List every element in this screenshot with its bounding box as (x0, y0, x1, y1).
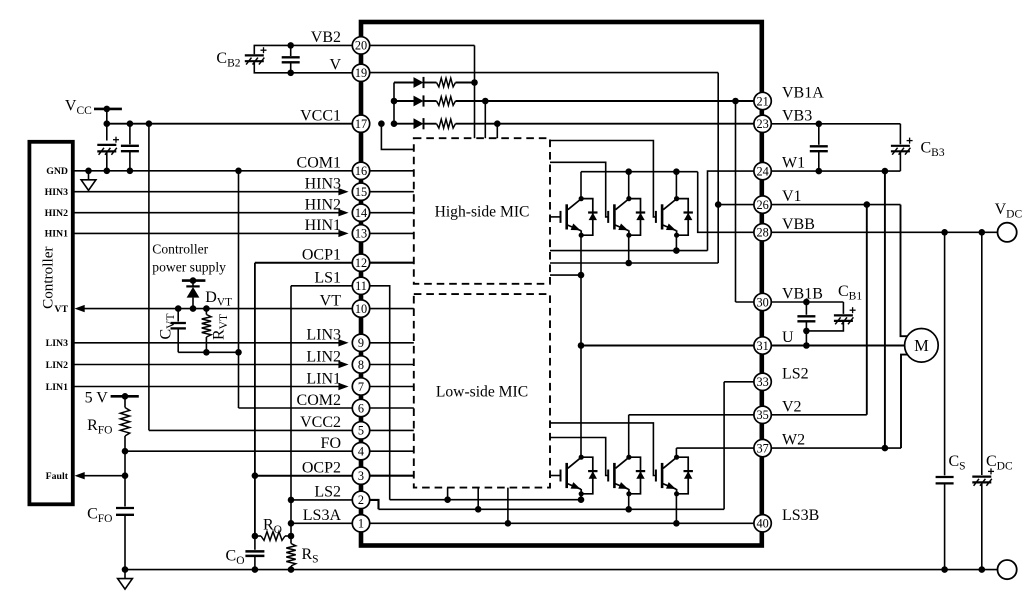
wire (456, 82, 475, 84)
svg-text:1: 1 (358, 517, 364, 531)
wire LIN signal (73, 364, 339, 366)
svg-text:21: 21 (756, 94, 768, 108)
wire VB3 riser into MIC (496, 124, 498, 139)
svg-text:VB3: VB3 (782, 107, 812, 124)
wire LS2 inside jog (370, 500, 379, 509)
wire V2 net (771, 414, 867, 416)
wire U net to pin 31 (581, 345, 754, 347)
wire VB1B inside to pin 30 (736, 301, 754, 303)
pin 30 (754, 293, 771, 310)
svg-text:11: 11 (355, 279, 367, 293)
junction Fault line (122, 472, 129, 479)
junction LS2 line (288, 497, 295, 504)
capacitor CB3 (electrolytic) (891, 138, 913, 155)
wire RVT to return rail (205, 337, 207, 352)
svg-text:VCC2: VCC2 (300, 414, 341, 431)
arrow into HIN pin (338, 209, 348, 216)
wire LIN2 into low-side MIC (370, 364, 414, 366)
wire GND/COM1 net (73, 170, 353, 172)
svg-text:Controller: Controller (40, 246, 57, 308)
wire Q5 emitter drop (628, 494, 630, 510)
wire gate Q2 route (550, 162, 608, 217)
pin 16 (352, 162, 369, 179)
junction sense stub (505, 520, 512, 527)
svg-text:35: 35 (756, 408, 768, 422)
junction LS3A line (288, 520, 295, 527)
svg-text:LIN3: LIN3 (46, 338, 68, 349)
junction sense stub (475, 506, 482, 513)
wire (394, 100, 414, 102)
junction W riser (882, 168, 889, 175)
wire to CFO (124, 451, 126, 506)
wire W-phase emitter line (550, 250, 708, 252)
svg-text:OCP1: OCP1 (302, 247, 341, 264)
pin 28 (754, 224, 771, 241)
svg-text:31: 31 (756, 339, 768, 353)
svg-text:5 V: 5 V (85, 389, 109, 406)
wire LS1 inside riser (370, 286, 390, 500)
svg-text:HIN3: HIN3 (45, 187, 69, 198)
wire Q2 collector (628, 172, 630, 199)
svg-text:VBB: VBB (782, 216, 815, 233)
wire V2 to pin 35 (629, 414, 754, 416)
wire VCC1 net (107, 123, 352, 125)
pin 31 (754, 337, 771, 354)
pin 20 (352, 37, 369, 54)
svg-text:VT: VT (320, 292, 342, 309)
Low-side MIC block (dashed) (414, 294, 550, 488)
arrow into controller VT (75, 305, 85, 312)
svg-text:VCC1: VCC1 (300, 108, 341, 125)
wire VB1B net (771, 301, 843, 303)
junction bootstrap row 1 (471, 79, 478, 86)
svg-text:power supply: power supply (152, 260, 226, 275)
wire W phase to motor (901, 355, 907, 449)
capacitor (ceramic) VB1B-U (797, 316, 815, 321)
wire (394, 123, 414, 125)
junction VCC1 stub (378, 120, 385, 127)
wire negative DC rail (125, 569, 998, 571)
junction Q6 emitter (673, 520, 680, 527)
transistor Q4 (U low) (IGBT with freewheel diode) (561, 455, 598, 497)
wire ceramic cap to GND line (129, 151, 131, 171)
wire HIN2 into high-side MIC (370, 212, 414, 214)
svg-text:M: M (914, 336, 929, 355)
junction on VCC bar (104, 106, 111, 113)
wire W1 net (771, 170, 900, 172)
wire to CDC (981, 232, 983, 475)
svg-text:13: 13 (355, 227, 367, 241)
svg-text:24: 24 (756, 164, 768, 178)
pin 13 (352, 225, 369, 242)
pin 11 (352, 277, 369, 294)
controller box (29, 142, 72, 505)
wire VCC1 to ceramic cap (129, 124, 131, 145)
svg-text:VB1B: VB1B (782, 286, 823, 303)
wire RFO to FO line (124, 436, 126, 451)
wire (290, 62, 292, 73)
wire collector rail to VBB pin 28 (698, 172, 754, 233)
High-side MIC block (dashed) (414, 138, 550, 284)
wire W2 net (771, 447, 901, 449)
junction cap return (803, 328, 810, 335)
transistor Q5 (V low) (IGBT with freewheel diode) (608, 455, 645, 497)
wire LIN signal (73, 342, 339, 344)
wire (424, 100, 437, 102)
wire (394, 82, 414, 84)
resistor RS (286, 544, 295, 567)
wire V1 to V2 riser (866, 205, 868, 415)
wire gate Q6 route (550, 423, 656, 476)
wire gate Q5 route (550, 438, 608, 476)
wire LIN signal (73, 386, 339, 388)
svg-text:V2: V2 (782, 398, 802, 415)
svg-text:4: 4 (358, 445, 364, 459)
wire V phase to motor (901, 205, 908, 337)
pin 10 (352, 300, 369, 317)
svg-text:16: 16 (355, 164, 367, 178)
wire VCC1 into MIC (381, 124, 413, 150)
junction VCC1/VCC2 riser (146, 120, 153, 127)
bootstrap resistor (row 3) (437, 119, 456, 128)
pin 4 (352, 443, 369, 460)
junction ground symbol (85, 168, 92, 175)
pin 24 (754, 162, 771, 179)
junction VT line (190, 305, 197, 312)
wire COM2 net (239, 407, 353, 409)
wire FO into low-side MIC (370, 450, 414, 452)
wire HIN signal (73, 232, 339, 234)
svg-text:W2: W2 (782, 432, 805, 449)
junction VB1B riser (732, 98, 739, 105)
power module outline (361, 22, 762, 546)
wire (424, 82, 437, 84)
pin 9 (352, 334, 369, 351)
bootstrap diode (row 2) (414, 95, 424, 106)
resistor RO (261, 532, 285, 541)
wire Q1 collector (580, 172, 582, 199)
pin 40 (754, 515, 771, 532)
wire U net to motor (771, 345, 904, 347)
svg-text:VB2: VB2 (311, 29, 341, 46)
wire CO to ground rail (254, 556, 256, 570)
bootstrap resistor (row 2) (437, 97, 456, 106)
wire bootstrap feed riser (393, 83, 395, 124)
pin 26 (754, 196, 771, 213)
svg-text:Fault: Fault (46, 471, 69, 482)
arrow into controller Fault (75, 472, 85, 479)
svg-text:Low-side MIC: Low-side MIC (436, 384, 528, 401)
wire Q6 emitter drop (675, 494, 677, 524)
wire HIN3 into high-side MIC (370, 191, 414, 193)
wire VB2 riser into MIC (474, 45, 476, 138)
wire CVT to return rail (177, 328, 179, 352)
transistor Q3 (W high) (IGBT with freewheel diode) (656, 196, 693, 238)
junction U line (803, 342, 810, 349)
wire VT into low-side MIC (370, 308, 414, 310)
wire LS2 net (291, 499, 352, 501)
wire VB1A to VB1B riser (735, 101, 737, 302)
capacitor CFO (116, 508, 134, 515)
junction U emitter line (578, 272, 585, 279)
wire Q4 emitter drop (580, 494, 582, 500)
junction VCC1 line (127, 120, 134, 127)
wire FO net (125, 450, 352, 452)
5V supply bar (111, 395, 139, 398)
VCC supply bar (94, 108, 122, 111)
wire (805, 302, 807, 315)
capacitor CB1 (electrolytic) (834, 307, 856, 324)
wire CS to rail (944, 483, 946, 569)
pin 12 (352, 254, 369, 271)
capacitor CVT (171, 323, 186, 328)
svg-text:LS3A: LS3A (303, 507, 342, 524)
pin 23 (754, 115, 771, 132)
junction ground rail (122, 566, 129, 573)
junction cap (803, 299, 810, 306)
svg-text:14: 14 (355, 206, 367, 220)
svg-text:High-side MIC: High-side MIC (435, 204, 530, 221)
resistor RFO (120, 408, 129, 437)
wire VB1A riser into MIC (484, 101, 486, 138)
wire gate Q1 (550, 216, 561, 218)
junction VB1A riser (482, 98, 489, 105)
wire CVT/RVT return rail (178, 351, 238, 353)
svg-text:20: 20 (355, 39, 367, 53)
svg-text:FO: FO (321, 435, 341, 452)
wire cap to GND line (106, 151, 108, 170)
svg-text:10: 10 (355, 302, 367, 316)
junction ground rail (979, 566, 986, 573)
junction Q3 emitter (673, 247, 680, 254)
wire VT to CVT (177, 309, 179, 322)
wire V inside (370, 72, 719, 74)
transistor Q2 (V high) (IGBT with freewheel diode) (608, 196, 645, 238)
wire W1 to W2 riser (884, 171, 886, 448)
svg-text:LS2: LS2 (782, 365, 809, 382)
junction GND line (127, 168, 134, 175)
wire MIC sense stub 2 (477, 488, 479, 510)
svg-text:V: V (329, 57, 341, 74)
svg-text:33: 33 (756, 375, 768, 389)
wire CFO to ground rail (124, 515, 126, 570)
svg-text:8: 8 (358, 358, 364, 372)
svg-text:LS1: LS1 (314, 270, 341, 287)
pin 14 (352, 204, 369, 221)
pin 6 (352, 399, 369, 416)
svg-text:V1: V1 (782, 188, 802, 205)
wire LS3A-LS3B rail (370, 522, 754, 524)
wire Fault net (84, 475, 125, 477)
svg-text:U: U (782, 329, 794, 346)
wire to CO (254, 536, 256, 550)
junction V line (287, 70, 294, 77)
wire (255, 535, 261, 537)
transistor Q6 (W low) (IGBT with freewheel diode) (656, 455, 693, 497)
wire Q3 collector (675, 172, 677, 199)
svg-text:VB1A: VB1A (782, 85, 824, 102)
pin 37 (754, 439, 771, 456)
junction W riser (882, 445, 889, 452)
ground (power) (118, 570, 133, 590)
wire VCC2 into low-side MIC (370, 429, 414, 431)
wire (290, 45, 292, 56)
svg-text:9: 9 (358, 336, 364, 350)
svg-text:HIN3: HIN3 (305, 176, 341, 193)
bootstrap diode (row 3) (414, 118, 424, 129)
wire RS to ground rail (290, 566, 292, 570)
pin 2 (352, 491, 369, 508)
svg-text:LIN1: LIN1 (306, 370, 341, 387)
arrow into HIN pin (338, 188, 348, 195)
junction cap (816, 121, 823, 128)
motor M (905, 329, 939, 363)
wire OCP1/OCP2 riser (254, 263, 256, 536)
wire MIC sense stub 1 (447, 488, 449, 500)
svg-text:6: 6 (358, 401, 364, 415)
junction return rail (203, 349, 210, 356)
svg-text:HIN2: HIN2 (45, 208, 69, 219)
wire OCP1 net (255, 262, 352, 264)
svg-text:W1: W1 (782, 155, 805, 172)
pin 7 (352, 378, 369, 395)
wire COM2 into low-side MIC (370, 407, 414, 409)
pin 8 (352, 356, 369, 373)
svg-text:40: 40 (756, 517, 768, 531)
svg-text:COM2: COM2 (297, 392, 341, 409)
wire VBB / DC+ net (771, 231, 997, 233)
junction U output line (578, 342, 585, 349)
arrow into HIN pin (338, 230, 348, 237)
svg-text:26: 26 (756, 198, 768, 212)
wire V riser (V phase) (717, 73, 719, 263)
wire low-side V-phase emitter rail (379, 508, 725, 510)
junction Q2 collector (625, 168, 632, 175)
bootstrap diode (row 1) (414, 77, 424, 88)
wire CDC to rail (981, 482, 983, 569)
bootstrap resistor (row 1) (437, 78, 456, 87)
svg-text:37: 37 (756, 441, 768, 455)
arrow into LIN pin (338, 339, 348, 346)
wire U phase column (580, 235, 582, 457)
svg-text:23: 23 (756, 117, 768, 131)
svg-text:LIN3: LIN3 (306, 327, 341, 344)
wire LS2 inside to pin 33 (724, 381, 754, 383)
svg-text:HIN2: HIN2 (305, 197, 341, 214)
junction RO/CO (252, 533, 259, 540)
wire W1 to pin 24 (708, 171, 754, 251)
wire HIN1 into high-side MIC (370, 232, 414, 234)
wire VCC bar to decoupling cap (106, 109, 108, 141)
wire CB1 return (806, 321, 843, 331)
capacitor CS (936, 477, 954, 483)
svg-text:2: 2 (358, 493, 364, 507)
pin 19 (352, 64, 369, 81)
wire cap return to U (805, 331, 807, 346)
wire (818, 124, 820, 145)
svg-text:LS3B: LS3B (782, 507, 819, 524)
wire bar to DVT (192, 281, 194, 287)
junction ground rail (941, 566, 948, 573)
svg-text:LIN2: LIN2 (46, 360, 68, 371)
capacitor CDC (electrolytic) (972, 468, 994, 485)
junction row 3 (391, 120, 398, 127)
wire (805, 321, 807, 331)
pin 35 (754, 406, 771, 423)
controller supply bar (182, 279, 206, 282)
terminal VDC- (998, 560, 1017, 579)
wire 5V to RFO (124, 396, 126, 407)
svg-text:HIN1: HIN1 (305, 217, 341, 234)
svg-text:5: 5 (358, 424, 364, 438)
wire gate Q3 route (550, 141, 656, 217)
wire OCP2 net (255, 475, 352, 477)
wire LS3A net (291, 522, 352, 524)
terminal VDC+ (998, 223, 1017, 242)
pin 33 (754, 373, 771, 390)
pin 3 (352, 467, 369, 484)
wire VT to RVT (205, 309, 207, 315)
junction Q2 emitter (625, 260, 632, 267)
svg-text:OCP2: OCP2 (302, 460, 341, 477)
wire VB2 net (254, 45, 352, 54)
junction V riser (864, 201, 871, 208)
wire (899, 151, 901, 171)
junction Q5 emitter (625, 506, 632, 513)
junction CS (941, 229, 948, 236)
svg-text:LS2: LS2 (314, 484, 341, 501)
wire V1 net (771, 204, 900, 206)
pin 15 (352, 183, 369, 200)
junction GND riser (235, 168, 242, 175)
svg-text:VT: VT (54, 304, 68, 315)
wire low-side U-phase emitter rail (390, 499, 581, 501)
svg-text:LIN1: LIN1 (46, 382, 68, 393)
transistor Q1 (U high) (IGBT with freewheel diode) (561, 196, 598, 238)
junction FO line (122, 448, 129, 455)
junction ground rail (252, 566, 259, 573)
junction ground rail (288, 566, 295, 573)
wire VB3 net (771, 123, 900, 125)
svg-text:COM1: COM1 (297, 155, 341, 172)
junction GND line (104, 168, 111, 175)
wire GND riser to COM2 (238, 171, 240, 408)
wire LIN3 into low-side MIC (370, 342, 414, 344)
wire V net (254, 62, 352, 73)
capacitor (ceramic) VB3-W1 (810, 146, 828, 151)
junction VCC1 line (104, 120, 111, 127)
pin 5 (352, 422, 369, 439)
pin 17 (352, 115, 369, 132)
wire HIN signal (73, 212, 339, 214)
wire Q6 collector riser (675, 448, 677, 457)
junction DVT bar (190, 277, 197, 284)
junction RO/RS (288, 533, 295, 540)
arrow into LIN pin (338, 361, 348, 368)
svg-text:17: 17 (355, 117, 367, 131)
diode DVT (186, 286, 199, 297)
wire DVT to VT line (192, 298, 194, 309)
capacitor CO (245, 551, 264, 556)
wire VB2 inside (370, 44, 475, 46)
wire W2 to pin 37 (676, 447, 754, 449)
wire OCP1 into high-side MIC (370, 262, 414, 264)
pin 21 (754, 92, 771, 109)
wire Q2 emitter drop (628, 235, 630, 263)
capacitor (ceramic) on VCC rail (121, 146, 139, 151)
junction V1 line (715, 201, 722, 208)
pin 1 (352, 515, 369, 532)
